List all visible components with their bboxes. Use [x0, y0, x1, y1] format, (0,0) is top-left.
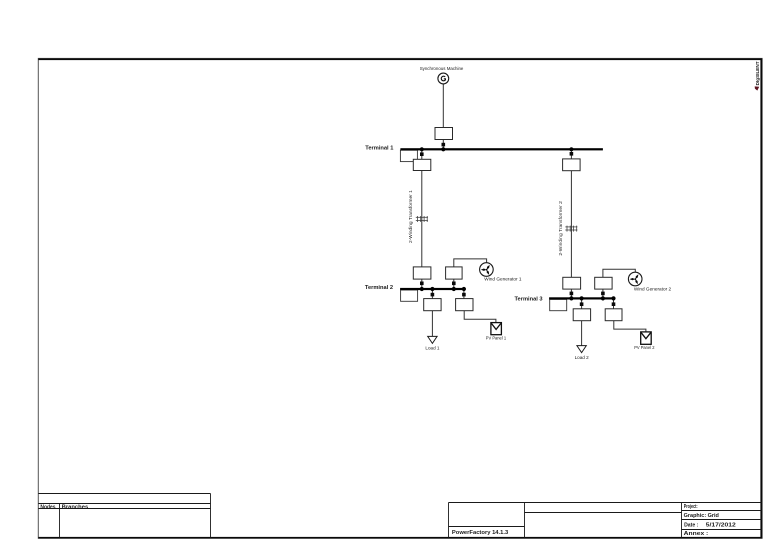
svg-text:Load 1: Load 1	[425, 345, 440, 350]
svg-text:Wind Generator 1: Wind Generator 1	[484, 277, 522, 282]
svg-text:PowerFactory 14.1.3: PowerFactory 14.1.3	[452, 530, 508, 536]
svg-text:PV Panel 1: PV Panel 1	[486, 335, 507, 340]
svg-text:Terminal 1: Terminal 1	[365, 146, 393, 152]
svg-text:2-Winding Transformer 1: 2-Winding Transformer 1	[408, 190, 413, 243]
svg-text:2-Winding Transformer 2: 2-Winding Transformer 2	[558, 201, 563, 256]
svg-text:Wind Generator 2: Wind Generator 2	[634, 287, 672, 292]
svg-text:Load 2: Load 2	[575, 355, 590, 360]
svg-text:5/17/2012: 5/17/2012	[706, 522, 736, 528]
svg-text:PV Panel 2: PV Panel 2	[634, 345, 655, 350]
svg-text:Nodes: Nodes	[40, 504, 55, 510]
svg-text:Synchronous Machine: Synchronous Machine	[420, 66, 464, 71]
svg-text:Project:: Project:	[684, 504, 698, 510]
svg-text:Terminal 2: Terminal 2	[365, 285, 393, 291]
svg-text:DIgSILENT: DIgSILENT	[755, 61, 760, 86]
svg-text:Annex :: Annex :	[684, 531, 709, 537]
svg-text:Terminal 3: Terminal 3	[515, 296, 543, 302]
svg-text:Date :: Date :	[684, 522, 698, 528]
svg-text:Graphic: Grid: Graphic: Grid	[684, 513, 719, 519]
svg-text:Branches: Branches	[62, 504, 89, 510]
